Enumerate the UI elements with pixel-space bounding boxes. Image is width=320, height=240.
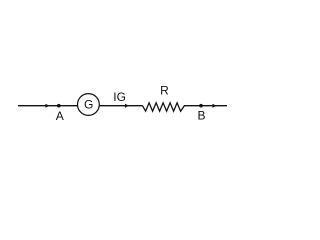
- svg-text:B: B: [197, 109, 205, 123]
- current direction arrow on left lead: [45, 104, 49, 108]
- current direction arrow out of node B: [212, 104, 216, 108]
- svg-text:G: G: [84, 98, 93, 112]
- wire: left lead into node A: [18, 105, 78, 107]
- current IG direction arrow: [125, 104, 129, 108]
- svg-text:IG: IG: [113, 90, 126, 104]
- node B (junction dot): [199, 104, 203, 108]
- node A (junction dot): [57, 104, 61, 108]
- resistor R (zigzag body): [143, 103, 185, 111]
- svg-text:R: R: [160, 84, 169, 98]
- wire: galvanometer to resistor R: [99, 105, 142, 107]
- svg-text:A: A: [56, 109, 64, 123]
- wire: resistor R to node B and out: [184, 105, 227, 107]
- galvanometer U1 (body circle): [78, 94, 100, 116]
